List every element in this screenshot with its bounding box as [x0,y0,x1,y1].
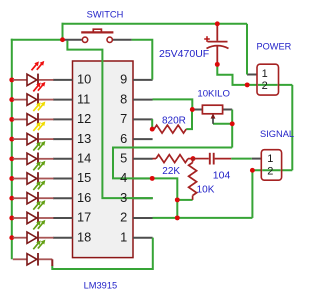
junction SIGNAL pin 2 [250,168,255,173]
svg-text:4: 4 [120,170,127,185]
svg-text:16: 16 [77,190,91,205]
wire IC pin 7 down to 820R [151,119,153,129]
LED D6 [9,176,14,181]
wire top supply rail [62,23,248,25]
LED D4 [9,137,14,142]
junction pot wiper [230,121,235,126]
LED D7 [9,196,14,201]
svg-text:12: 12 [77,111,91,126]
svg-text:1: 1 [267,153,273,165]
svg-text:10KILO: 10KILO [197,89,230,100]
junction bottom net node [175,215,180,220]
connector J1 POWER [257,64,279,95]
svg-text:3: 3 [120,190,127,205]
wire POWER pin 2 through connector to right [246,84,292,86]
wire bottom net pin 2 row [153,217,253,219]
svg-text:9: 9 [120,72,127,87]
wire switch right to IC pin 9 [132,40,153,80]
wire 820R right up to pot left [186,110,192,130]
svg-text:11: 11 [77,91,90,106]
LED D8 [9,216,14,221]
wire SIGNAL pin 2 down to bottom net [251,170,253,218]
capacitor C2 104 [193,158,209,160]
junction cap top [215,21,220,26]
svg-text:22K: 22K [162,166,180,177]
LED D2 [9,97,14,102]
svg-text:15: 15 [77,170,91,185]
svg-text:820R: 820R [162,115,186,126]
svg-text:10K: 10K [197,185,215,196]
svg-text:2: 2 [120,210,127,225]
resistor R3 10K [192,159,194,163]
junction switch node [60,37,65,42]
svg-text:10: 10 [77,72,91,87]
wire switch to IC pin 3 (jog) [67,41,152,199]
svg-text:LM3915: LM3915 [84,281,118,291]
wire 10K bottom link [177,199,192,201]
junction pot left [190,107,195,112]
svg-text:7: 7 [120,111,127,126]
IC U1 LM3915 body [73,61,134,258]
LED D10 [13,258,27,260]
wire capacitor bottom to POWER pin 2 [217,64,248,85]
LED D5 [9,156,14,161]
svg-text:17: 17 [77,210,91,225]
svg-text:8: 8 [120,91,127,106]
svg-text:5: 5 [120,151,127,166]
svg-text:1: 1 [120,229,127,244]
svg-text:6: 6 [120,131,127,146]
potentiometer RV1 leads [192,109,202,111]
wire right vertical POWER to SIGNAL [291,85,293,170]
LED D9 [9,235,14,240]
junction 10K bottom node [175,197,180,202]
connector J2 pin 1 stub [252,158,262,160]
LED D3 [9,117,14,122]
svg-text:SWITCH: SWITCH [87,10,124,20]
wire junction up to top rail [62,23,64,40]
wire 104 cap to SIGNAL pin 1 [231,158,252,160]
svg-text:SIGNAL: SIGNAL [260,129,294,139]
wire pot net across IC to pin 4 net [113,148,232,179]
junction R1 left [150,127,155,132]
potentiometer RV1 10KILO [202,105,222,114]
wire left LED supply rail [11,39,13,260]
capacitor C1 25V470UF [216,24,218,41]
svg-text:104: 104 [213,170,231,182]
wire pot wiper junction [213,123,232,125]
wire IC pin 1 to LED10 cathode [52,238,153,269]
resistor R1 820R [154,125,186,133]
svg-text:POWER: POWER [257,42,292,52]
svg-text:2: 2 [267,165,273,177]
svg-text:14: 14 [77,151,91,166]
junction R2 right node [191,156,196,161]
junction POWER pin 2 [245,82,250,87]
resistor R2 22K [153,158,157,160]
svg-text:2: 2 [262,80,268,92]
wire top rail down to POWER pin 1 [246,24,248,75]
wire IC pin 8 to pot left [153,99,193,109]
svg-text:13: 13 [77,131,91,146]
wire IC pin 4 to node chain [152,178,177,218]
junction pin4 node [150,176,155,181]
IC pin stubs (pins 1-18) [53,79,73,81]
wire SIGNAL pin 2 row through connector [252,169,292,171]
svg-text:18: 18 [77,229,91,244]
pushbutton switch S1 [63,39,82,41]
connector J1 pin stubs [247,74,257,76]
wire pot right terminal down [231,110,233,148]
junction cap bottom [215,62,220,67]
connector J2 SIGNAL [261,150,281,181]
svg-text:25V470UF: 25V470UF [159,48,209,60]
svg-text:1: 1 [262,68,268,80]
wire rail top to switch junction [11,39,63,41]
LED D1 [9,77,14,82]
